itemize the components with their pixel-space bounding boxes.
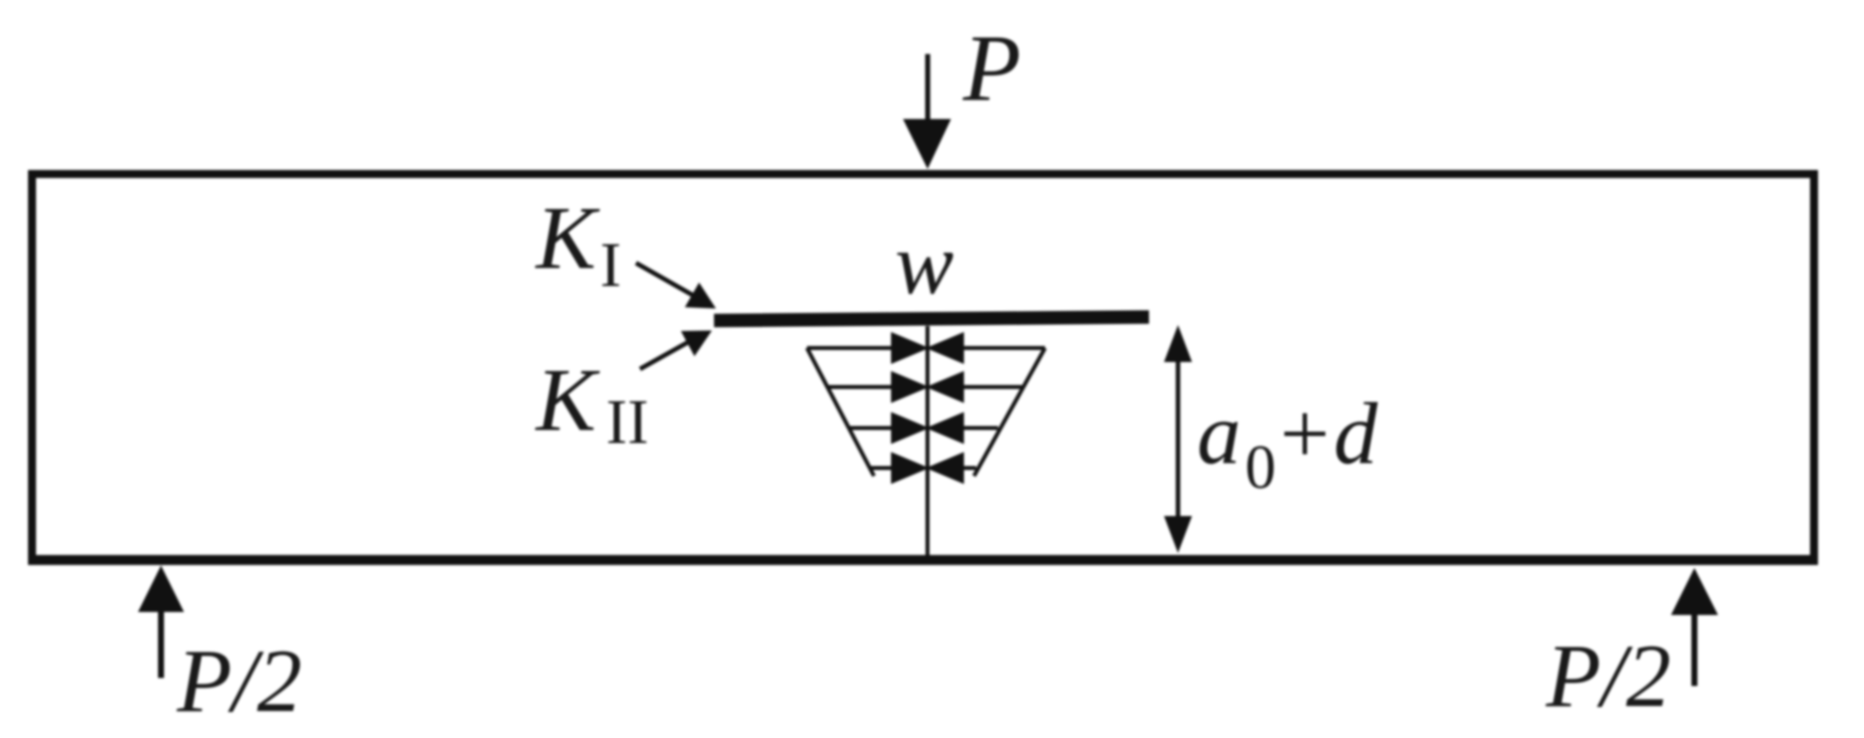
crack line w (thick horizontal) [714, 317, 1149, 321]
svg-text:P/2: P/2 [176, 632, 302, 731]
load arrow P (top center, pointing down) [903, 54, 951, 169]
right support arrow P/2 (pointing up) [1671, 568, 1718, 686]
svg-text:P: P [962, 15, 1021, 121]
beam outline rectangle [28, 170, 1818, 565]
svg-text:P/2: P/2 [1545, 627, 1671, 726]
left support arrow P/2 (pointing up) [138, 566, 184, 679]
dimension double arrow a0+d [1164, 325, 1192, 553]
leader arrow for K_II [640, 331, 711, 369]
right distributed-load triangle outline [974, 348, 1045, 476]
svg-text:w: w [895, 216, 954, 313]
crack center vertical line [926, 326, 930, 555]
left distributed-load triangle outline [807, 348, 874, 476]
svg-text:KII: KII [534, 351, 649, 457]
svg-text:KI: KI [534, 189, 621, 300]
left load arrows (pointing right) [807, 335, 924, 481]
leader arrow for K_I [636, 263, 715, 308]
right load arrows (pointing left) [931, 335, 1045, 481]
svg-text:a0+d: a0+d [1197, 386, 1382, 502]
